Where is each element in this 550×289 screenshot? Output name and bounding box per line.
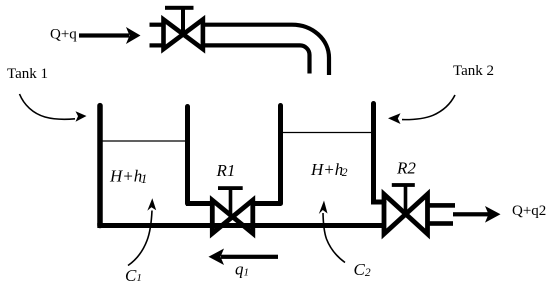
tank 2 pointer arrowhead xyxy=(388,113,401,124)
outlet pipe lower stub xyxy=(428,221,454,226)
valve R2 body xyxy=(384,194,428,234)
inflow arrow Q+q xyxy=(79,27,141,44)
C1 pointer curve xyxy=(128,211,152,266)
tank 2 right wall with bottom jog xyxy=(374,104,385,203)
tank 1 pointer curve xyxy=(20,94,76,119)
valve R1 handle bar xyxy=(218,186,243,190)
inlet pipe left stub lower wall xyxy=(150,43,164,47)
tank 1 left wall xyxy=(97,106,103,226)
C1 pointer arrowhead xyxy=(147,198,156,211)
svg-text:R1: R1 xyxy=(216,161,236,180)
valve R1 stem xyxy=(229,188,233,217)
inlet pipe left stub upper wall xyxy=(150,23,164,27)
inlet valve handle bar xyxy=(165,6,194,10)
valve R1 body xyxy=(212,200,253,233)
tank 2 left wall xyxy=(278,106,283,204)
outlet pipe upper stub xyxy=(428,203,456,208)
valve R2 handle bar xyxy=(392,183,415,187)
svg-text:R2: R2 xyxy=(396,159,416,178)
tank 2 water level line xyxy=(281,132,373,134)
inlet pipe upper wall (bends down) xyxy=(203,25,329,75)
outflow arrow Q+q2 xyxy=(453,206,501,223)
C2 pointer curve xyxy=(323,213,345,263)
inlet valve body xyxy=(164,20,203,50)
valve R2 stem xyxy=(404,185,408,214)
svg-text:Tank 2: Tank 2 xyxy=(453,63,494,79)
C2 pointer arrowhead xyxy=(319,201,328,215)
inlet valve stem xyxy=(181,8,185,36)
backflow arrow q1 xyxy=(209,249,279,266)
svg-text:Q+q2: Q+q2 xyxy=(512,203,546,219)
svg-text:H+h1: H+h1 xyxy=(109,167,147,187)
connector tank1 to valve R1 xyxy=(186,201,213,206)
inlet pipe lower wall (bends down) xyxy=(203,45,310,73)
svg-text:Tank 1: Tank 1 xyxy=(7,66,48,82)
svg-text:H+h2: H+h2 xyxy=(310,160,348,179)
tank 2 pointer curve xyxy=(402,95,455,120)
svg-text:Q+q: Q+q xyxy=(50,27,77,43)
bottom pipe xyxy=(97,223,384,228)
tank 1 right wall xyxy=(185,107,190,204)
tank 1 pointer arrowhead xyxy=(76,111,87,121)
connector valve R1 to tank2 xyxy=(252,201,281,206)
tank 1 water level line xyxy=(100,140,188,142)
